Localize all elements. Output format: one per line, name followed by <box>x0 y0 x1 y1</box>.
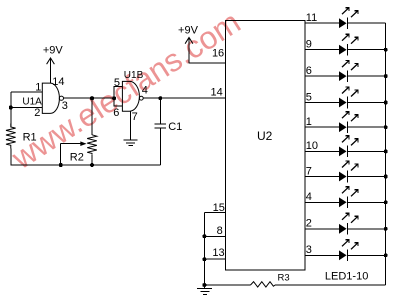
svg-text:14: 14 <box>52 76 64 88</box>
node pin2/rail junction <box>9 106 13 110</box>
wire U1A output node down to R2 <box>91 98 93 135</box>
svg-text:2: 2 <box>34 107 40 119</box>
wire U1B pin4 output to U2 pin 14 <box>143 97 225 99</box>
LED1 (U2 pin 11) <box>305 8 386 29</box>
watermark www.elecfans.com <box>5 4 247 177</box>
svg-text:6: 6 <box>113 107 119 119</box>
node LED rail junction row 10 <box>384 253 388 257</box>
svg-text:R2: R2 <box>70 152 84 164</box>
resistor R3 <box>251 273 290 287</box>
node U1A output to R2 <box>90 96 94 100</box>
wire U2 pin 13 <box>204 247 225 259</box>
svg-text:14: 14 <box>211 87 223 99</box>
node C1 junction <box>158 96 162 100</box>
node LED rail junction row 9 <box>384 227 388 231</box>
wire U1B pin 7 to ground <box>130 111 132 140</box>
LED7 (U2 pin 7) <box>305 161 386 182</box>
wire R1 bottom to bottom rail <box>11 149 161 166</box>
svg-text:3: 3 <box>62 100 68 112</box>
node R2 bottom to rail <box>90 163 94 167</box>
ground (main) <box>197 285 212 295</box>
wire U1A pin 2 <box>11 107 43 109</box>
pin 5 label U1B <box>114 77 120 89</box>
svg-text:4: 4 <box>142 85 148 97</box>
svg-text:11: 11 <box>306 12 317 24</box>
wire R3 to LED rail <box>275 284 386 286</box>
svg-text:1: 1 <box>306 116 312 128</box>
svg-text:C1: C1 <box>168 121 182 133</box>
wire U1A pin 14 to +9V <box>52 76 64 88</box>
LED3 (U2 pin 6) <box>305 61 386 82</box>
node pin 13 junction <box>202 257 206 261</box>
svg-text:16: 16 <box>212 48 224 60</box>
node wiper to rail <box>59 163 63 167</box>
node LED rail junction row 7 <box>384 175 388 179</box>
resistor R1 <box>6 124 37 149</box>
wire U1A pin 1 <box>11 91 43 93</box>
label LED1-10 <box>325 271 368 283</box>
svg-text:5: 5 <box>114 77 120 89</box>
LED4 (U2 pin 5) <box>305 87 386 108</box>
svg-text:LED1-10: LED1-10 <box>325 271 368 283</box>
pin 1 label U1A <box>35 81 41 93</box>
svg-text:R3: R3 <box>278 273 290 284</box>
R2 wiper arrow <box>61 141 87 165</box>
node ground rail junction <box>202 283 206 287</box>
node pin 8 junction <box>202 234 206 238</box>
pin 4 label U1B <box>142 85 148 97</box>
svg-text:+9V: +9V <box>43 45 64 57</box>
LED8 (U2 pin 4) <box>305 187 386 208</box>
node LED rail junction row 2 <box>384 48 388 52</box>
svg-text:8: 8 <box>217 225 223 237</box>
power +9V (U2 supply) <box>178 25 225 64</box>
svg-text:15: 15 <box>213 202 225 214</box>
svg-text:3: 3 <box>306 244 312 256</box>
IC U2 <box>226 21 306 270</box>
svg-text:7: 7 <box>306 165 312 177</box>
LED9 (U2 pin 2) <box>305 213 386 234</box>
svg-text:U1A: U1A <box>22 96 42 107</box>
wire pins 15/8/13 tie down to ground <box>203 212 205 285</box>
svg-text:5: 5 <box>306 91 312 103</box>
wire U1B input tie (pins 5+6) <box>114 87 122 106</box>
node LED rail junction row 3 <box>384 74 388 78</box>
NAND gate U1B <box>122 70 143 111</box>
wire LED cathode rail <box>385 23 387 285</box>
ground (U1B) <box>124 140 138 145</box>
resistor R2 (variable) <box>70 135 97 164</box>
svg-text:U1B: U1B <box>124 70 144 81</box>
node LED rail junction row 4 <box>384 101 388 105</box>
wire U1A pin3 output to U1B input <box>64 97 115 99</box>
svg-text:+9V: +9V <box>178 25 199 37</box>
capacitor C1 <box>154 98 182 165</box>
LED2 (U2 pin 9) <box>305 34 386 55</box>
wire left rail (feedback) <box>10 92 12 127</box>
svg-text:10: 10 <box>306 140 318 152</box>
wire ground to R3 <box>204 284 250 286</box>
node LED rail junction row 6 <box>384 149 388 153</box>
svg-text:1: 1 <box>35 81 41 93</box>
wire R2 bottom to rail <box>91 155 93 165</box>
pin 3 label U1A <box>62 100 68 112</box>
svg-text:U2: U2 <box>257 129 273 143</box>
svg-text:R1: R1 <box>23 132 37 144</box>
LED10 (U2 pin 3) <box>305 240 386 261</box>
wire U2 pin 8 <box>204 225 225 237</box>
svg-text:4: 4 <box>306 191 312 203</box>
op-amp / NAND gate U1A <box>22 83 63 113</box>
node U1B input junction <box>112 96 116 100</box>
svg-text:13: 13 <box>212 247 224 259</box>
svg-text:9: 9 <box>306 39 312 51</box>
svg-text:6: 6 <box>306 65 312 77</box>
pin 2 label U1A <box>34 107 40 119</box>
pin 14 label U2 <box>211 87 223 99</box>
svg-text:7: 7 <box>132 111 138 123</box>
wire U2 pin 15 <box>204 202 225 214</box>
node LED rail junction row 5 <box>384 125 388 129</box>
power +9V (U1A supply) <box>43 45 64 84</box>
LED5 (U2 pin 1) <box>305 112 386 133</box>
pin 6 label U1B <box>113 107 119 119</box>
pin 16 label U2 <box>212 48 224 60</box>
LED6 (U2 pin 10) <box>305 136 386 157</box>
svg-text:2: 2 <box>306 218 312 230</box>
pin 7 label U1B <box>132 111 138 123</box>
node LED rail junction row 8 <box>384 200 388 204</box>
